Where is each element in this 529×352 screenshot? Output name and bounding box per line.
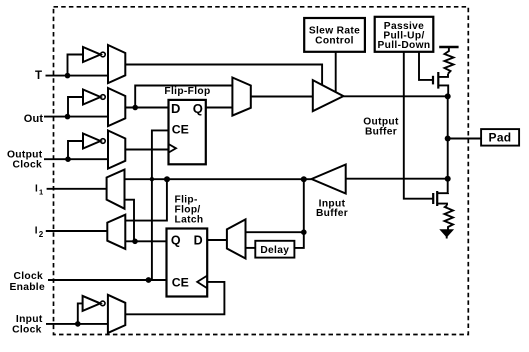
wire I2 output [46,230,108,232]
svg-text:Pad: Pad [489,131,512,145]
wire pull-up control [419,52,433,80]
svg-text:Buffer: Buffer [316,208,348,219]
flip-flop FF1 clock wedge [169,144,177,153]
wire Out bypass to output mux [135,86,232,108]
op-amp input buffer [312,165,346,194]
wire Output Clock mux output to flip-flop clock [125,149,168,151]
wire T input [46,75,109,77]
svg-text:Out: Out [24,113,44,125]
node input tap [445,176,451,182]
resistor pull-down [445,205,454,229]
mux Out polarity select [108,88,125,126]
node Output Clock junction [65,156,71,162]
inverter Out polarity [83,90,101,105]
node input line artifact dot [150,177,154,181]
node T junction [65,73,71,79]
flip-flop FF2 box [167,229,208,297]
svg-text:Delay: Delay [260,245,289,256]
delay box [255,241,294,258]
transistor Q2 pull-down mosfet [432,193,434,204]
wire output buffer to pad node [343,95,447,97]
inverter T polarity [83,47,101,62]
wire output mux to output buffer [251,96,313,98]
mux input clock polarity select [108,295,125,333]
wire input tap to input buffer [346,178,448,180]
svg-text:Q: Q [171,234,181,248]
passive pull-up pull-down box [375,17,434,52]
svg-text:1: 1 [39,187,43,196]
svg-text:D: D [171,101,180,116]
svg-text:I: I [35,226,38,237]
node FF2 Q branch [132,239,138,245]
wire I2 mux direct input [125,179,167,220]
wire delay output to mux [246,247,256,249]
node pad tap [445,136,451,142]
svg-text:2: 2 [39,230,44,239]
wire T mux output to output buffer 3-state [125,65,322,86]
node pad net top [445,93,451,99]
wire input buffer output to I1 mux [125,178,312,180]
dashed IOB boundary [54,7,469,335]
mux Output Clock polarity select [108,131,125,169]
wire FF2 clock from input clock mux [125,282,224,314]
svg-text:Latch: Latch [175,215,204,226]
wire mux to FF2 D [207,239,227,241]
svg-text:I: I [35,184,38,195]
wire pull-down control [404,52,433,199]
wire Out input [44,116,108,118]
wire I1 output [47,188,107,190]
wire delay input [294,232,303,248]
wire T inverter branch [68,55,84,76]
node input line to I2 branch [164,176,170,182]
transistor Q1 pull-up mosfet [432,76,434,85]
svg-text:T: T [35,70,42,82]
wire FF2 Q to input muxes [125,240,166,242]
mux output select [232,78,250,116]
mux I1 select [107,170,125,209]
power rail vcc bar [439,46,458,49]
wire pad tap to pad box [448,138,481,140]
pad box [481,129,519,146]
wire FF1 CE to clock enable net [152,130,169,280]
inverter Output Clock polarity [83,134,101,149]
wire Out mux output to flip-flop D [125,107,168,109]
svg-text:CE: CE [172,122,189,136]
mux I2 select [107,215,125,249]
node input clock junction [75,321,81,327]
flip-flop FF1 box [169,100,206,164]
mux T polarity select [108,45,125,83]
svg-text:Clock: Clock [13,271,43,282]
mux FF2 D source select [227,219,246,258]
wire Out inverter branch [68,97,83,117]
wire slew rate control to output buffer [335,52,337,92]
ground [440,230,453,237]
wire clock enable [48,279,167,281]
wire Output Clock input [44,158,108,160]
resistor pull-up [445,48,454,74]
svg-text:CE: CE [172,276,189,290]
svg-text:Q: Q [193,101,203,116]
svg-text:Input: Input [16,314,43,325]
inverter input clock polarity [83,296,101,311]
wire FF1 Q to output mux [206,107,233,109]
wire direct input to mux [246,179,304,232]
node Out junction [65,114,71,120]
svg-text:Buffer: Buffer [365,126,397,137]
svg-text:D: D [194,234,203,248]
svg-text:Enable: Enable [9,282,45,293]
node Out mux output junction [132,105,138,111]
node direct-delay branch [301,229,307,235]
wire input clock inverter branch [78,303,83,324]
svg-text:Clock: Clock [12,159,42,170]
wire I1 mux registered input [125,200,135,242]
wire input clock [46,323,108,325]
wire Output Clock inverter branch [68,141,83,159]
wire pad net vertical [447,96,449,192]
node input line to delay branch [301,176,307,182]
flip-flop FF2 clock wedge [197,276,207,289]
svg-text:Control: Control [315,36,354,47]
svg-text:Pull-Down: Pull-Down [378,40,431,51]
slew rate control box [304,18,365,52]
svg-text:Clock: Clock [12,325,42,336]
node clock enable junction [146,277,152,283]
svg-text:Flip-Flop: Flip-Flop [164,86,210,97]
op-amp output buffer [313,80,344,111]
